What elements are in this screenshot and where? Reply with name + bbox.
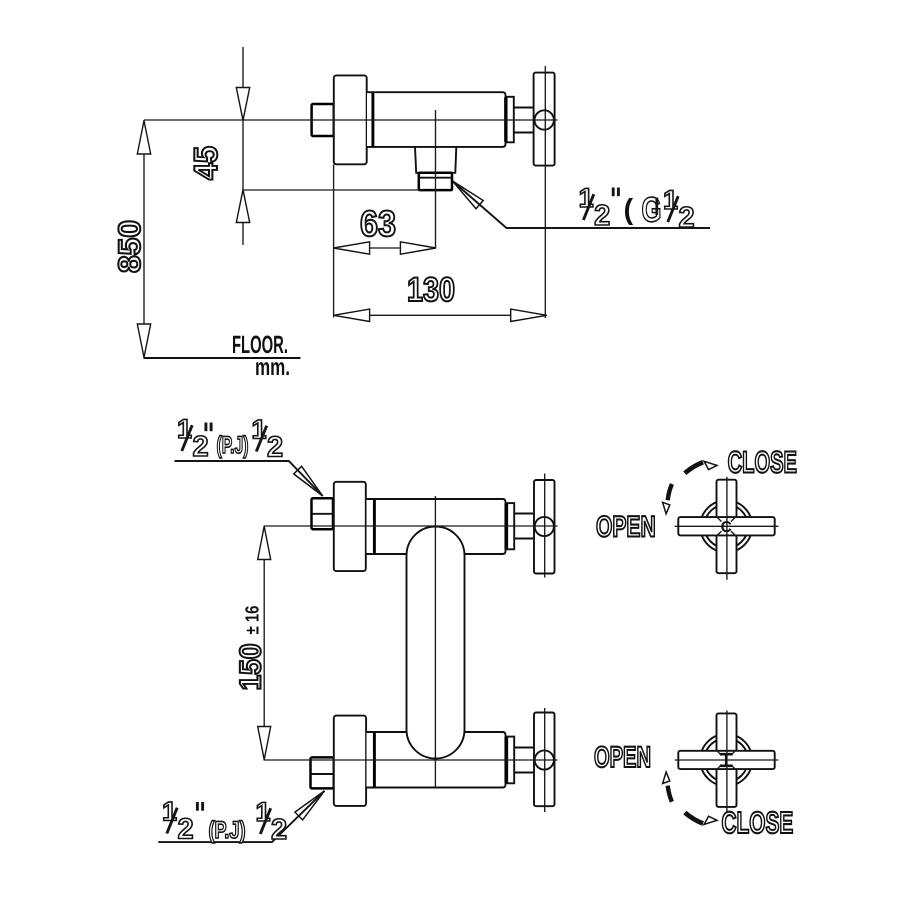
svg-text:± 16: ± 16 [243,606,264,635]
svg-text:63: 63 [360,203,396,244]
svg-text:130: 130 [407,271,455,309]
svg-text:C: C [721,519,732,536]
svg-text:CLOSE: CLOSE [728,446,797,480]
svg-text:45: 45 [187,146,224,180]
svg-text:(: ( [624,194,634,226]
svg-text:CLOSE: CLOSE [722,806,794,840]
svg-text:OPEN: OPEN [596,511,656,544]
svg-text:mm.: mm. [255,354,290,381]
svg-text:(P.J): (P.J) [209,817,246,844]
svg-text:150: 150 [235,644,268,691]
svg-text:OPEN: OPEN [594,741,651,774]
svg-text:G: G [642,191,662,230]
svg-text:(P.J): (P.J) [217,432,249,459]
svg-text:850: 850 [112,220,147,273]
